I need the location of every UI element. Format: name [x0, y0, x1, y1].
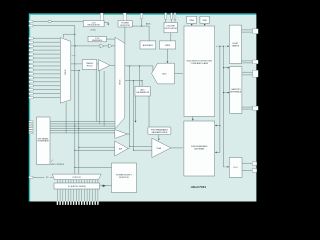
svg-text:JTAG: JTAG	[189, 19, 194, 22]
svg-text:AUXILIARY: AUXILIARY	[143, 44, 154, 47]
svg-text:LDO: LDO	[234, 167, 239, 169]
svg-text:MONITOR: MONITOR	[119, 177, 129, 179]
svg-text:(1.8V): (1.8V)	[91, 29, 96, 31]
svg-text:BUF: BUF	[119, 148, 122, 150]
svg-text:TIMERS: TIMERS	[232, 46, 240, 48]
svg-text:VREF: VREF	[165, 45, 171, 47]
svg-text:ADC: ADC	[162, 73, 167, 76]
svg-text:INTERFACE: INTERFACE	[230, 91, 242, 94]
svg-text:AVDD: AVDD	[146, 22, 151, 25]
svg-text:OSCILLATOR: OSCILLATOR	[164, 27, 177, 30]
svg-text:HOLD: HOLD	[87, 65, 93, 67]
svg-text:MONITOR: MONITOR	[120, 25, 130, 27]
svg-text:4kB SRAM: 4kB SRAM	[194, 147, 204, 150]
svg-text:PGA: PGA	[157, 147, 162, 150]
svg-text:INTERFACE: INTERFACE	[38, 140, 50, 143]
svg-text:GAIN AMPLIFIER: GAIN AMPLIFIER	[151, 131, 167, 134]
svg-text:SWD: SWD	[202, 20, 207, 22]
svg-text:PORT I/O: PORT I/O	[73, 177, 82, 179]
svg-text:GPIO CONTROL: GPIO CONTROL	[51, 164, 65, 166]
svg-text:REGULATOR: REGULATOR	[88, 24, 101, 27]
svg-text:ADuC7061: ADuC7061	[190, 185, 207, 189]
svg-text:CALIBRATION: CALIBRATION	[136, 91, 150, 94]
svg-text:REFERENCE: REFERENCE	[92, 40, 103, 42]
svg-text:MUX: MUX	[65, 69, 67, 74]
svg-text:I/O (LATCH / DRIVE): I/O (LATCH / DRIVE)	[68, 185, 86, 188]
svg-text:MUX: MUX	[120, 79, 122, 84]
svg-text:CORE AND FLASH: CORE AND FLASH	[191, 62, 209, 65]
